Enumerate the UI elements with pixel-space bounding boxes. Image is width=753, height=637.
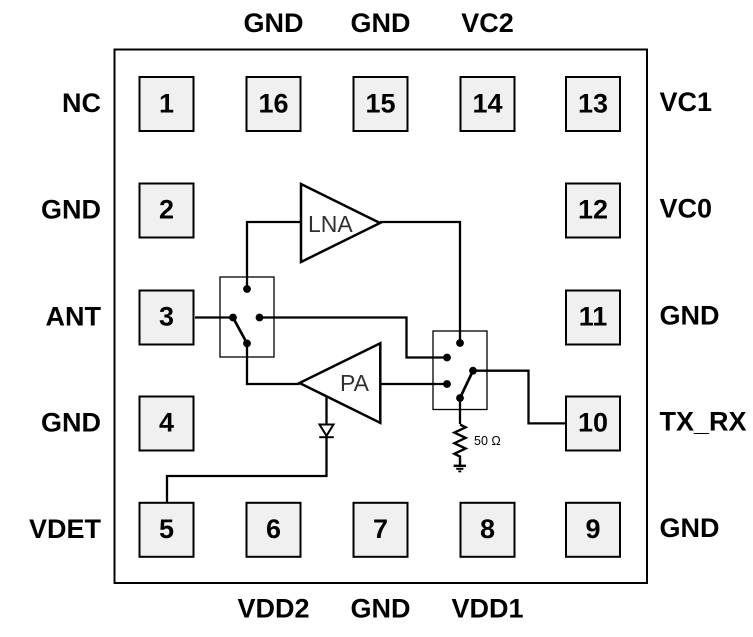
svg-text:GND: GND — [351, 8, 411, 38]
svg-text:TX_RX: TX_RX — [660, 407, 747, 437]
svg-text:GND: GND — [660, 301, 720, 331]
svg-text:1: 1 — [159, 89, 174, 119]
svg-text:VDD1: VDD1 — [451, 594, 523, 624]
svg-text:VC1: VC1 — [660, 87, 713, 117]
svg-text:7: 7 — [373, 514, 388, 544]
svg-text:8: 8 — [480, 514, 495, 544]
svg-text:PA: PA — [340, 370, 370, 396]
svg-text:VC2: VC2 — [461, 8, 514, 38]
svg-text:5: 5 — [159, 514, 174, 544]
svg-text:NC: NC — [62, 88, 101, 118]
svg-text:50 Ω: 50 Ω — [474, 434, 501, 448]
svg-text:VDD2: VDD2 — [237, 594, 309, 624]
svg-text:GND: GND — [41, 195, 101, 225]
svg-text:9: 9 — [585, 514, 600, 544]
svg-text:2: 2 — [159, 195, 174, 225]
svg-text:13: 13 — [578, 89, 608, 119]
svg-text:10: 10 — [578, 408, 608, 438]
svg-text:GND: GND — [351, 594, 411, 624]
svg-text:VDET: VDET — [29, 514, 102, 544]
svg-text:12: 12 — [578, 195, 608, 225]
svg-text:3: 3 — [159, 302, 174, 332]
svg-text:LNA: LNA — [308, 211, 353, 237]
svg-text:VC0: VC0 — [660, 194, 713, 224]
svg-text:6: 6 — [266, 514, 281, 544]
svg-text:ANT: ANT — [46, 302, 102, 332]
svg-text:4: 4 — [159, 408, 174, 438]
svg-text:16: 16 — [258, 89, 288, 119]
svg-text:11: 11 — [579, 302, 608, 332]
svg-text:GND: GND — [244, 8, 304, 38]
svg-text:GND: GND — [41, 408, 101, 438]
svg-text:15: 15 — [365, 89, 395, 119]
svg-text:14: 14 — [472, 89, 502, 119]
svg-text:GND: GND — [660, 513, 720, 543]
